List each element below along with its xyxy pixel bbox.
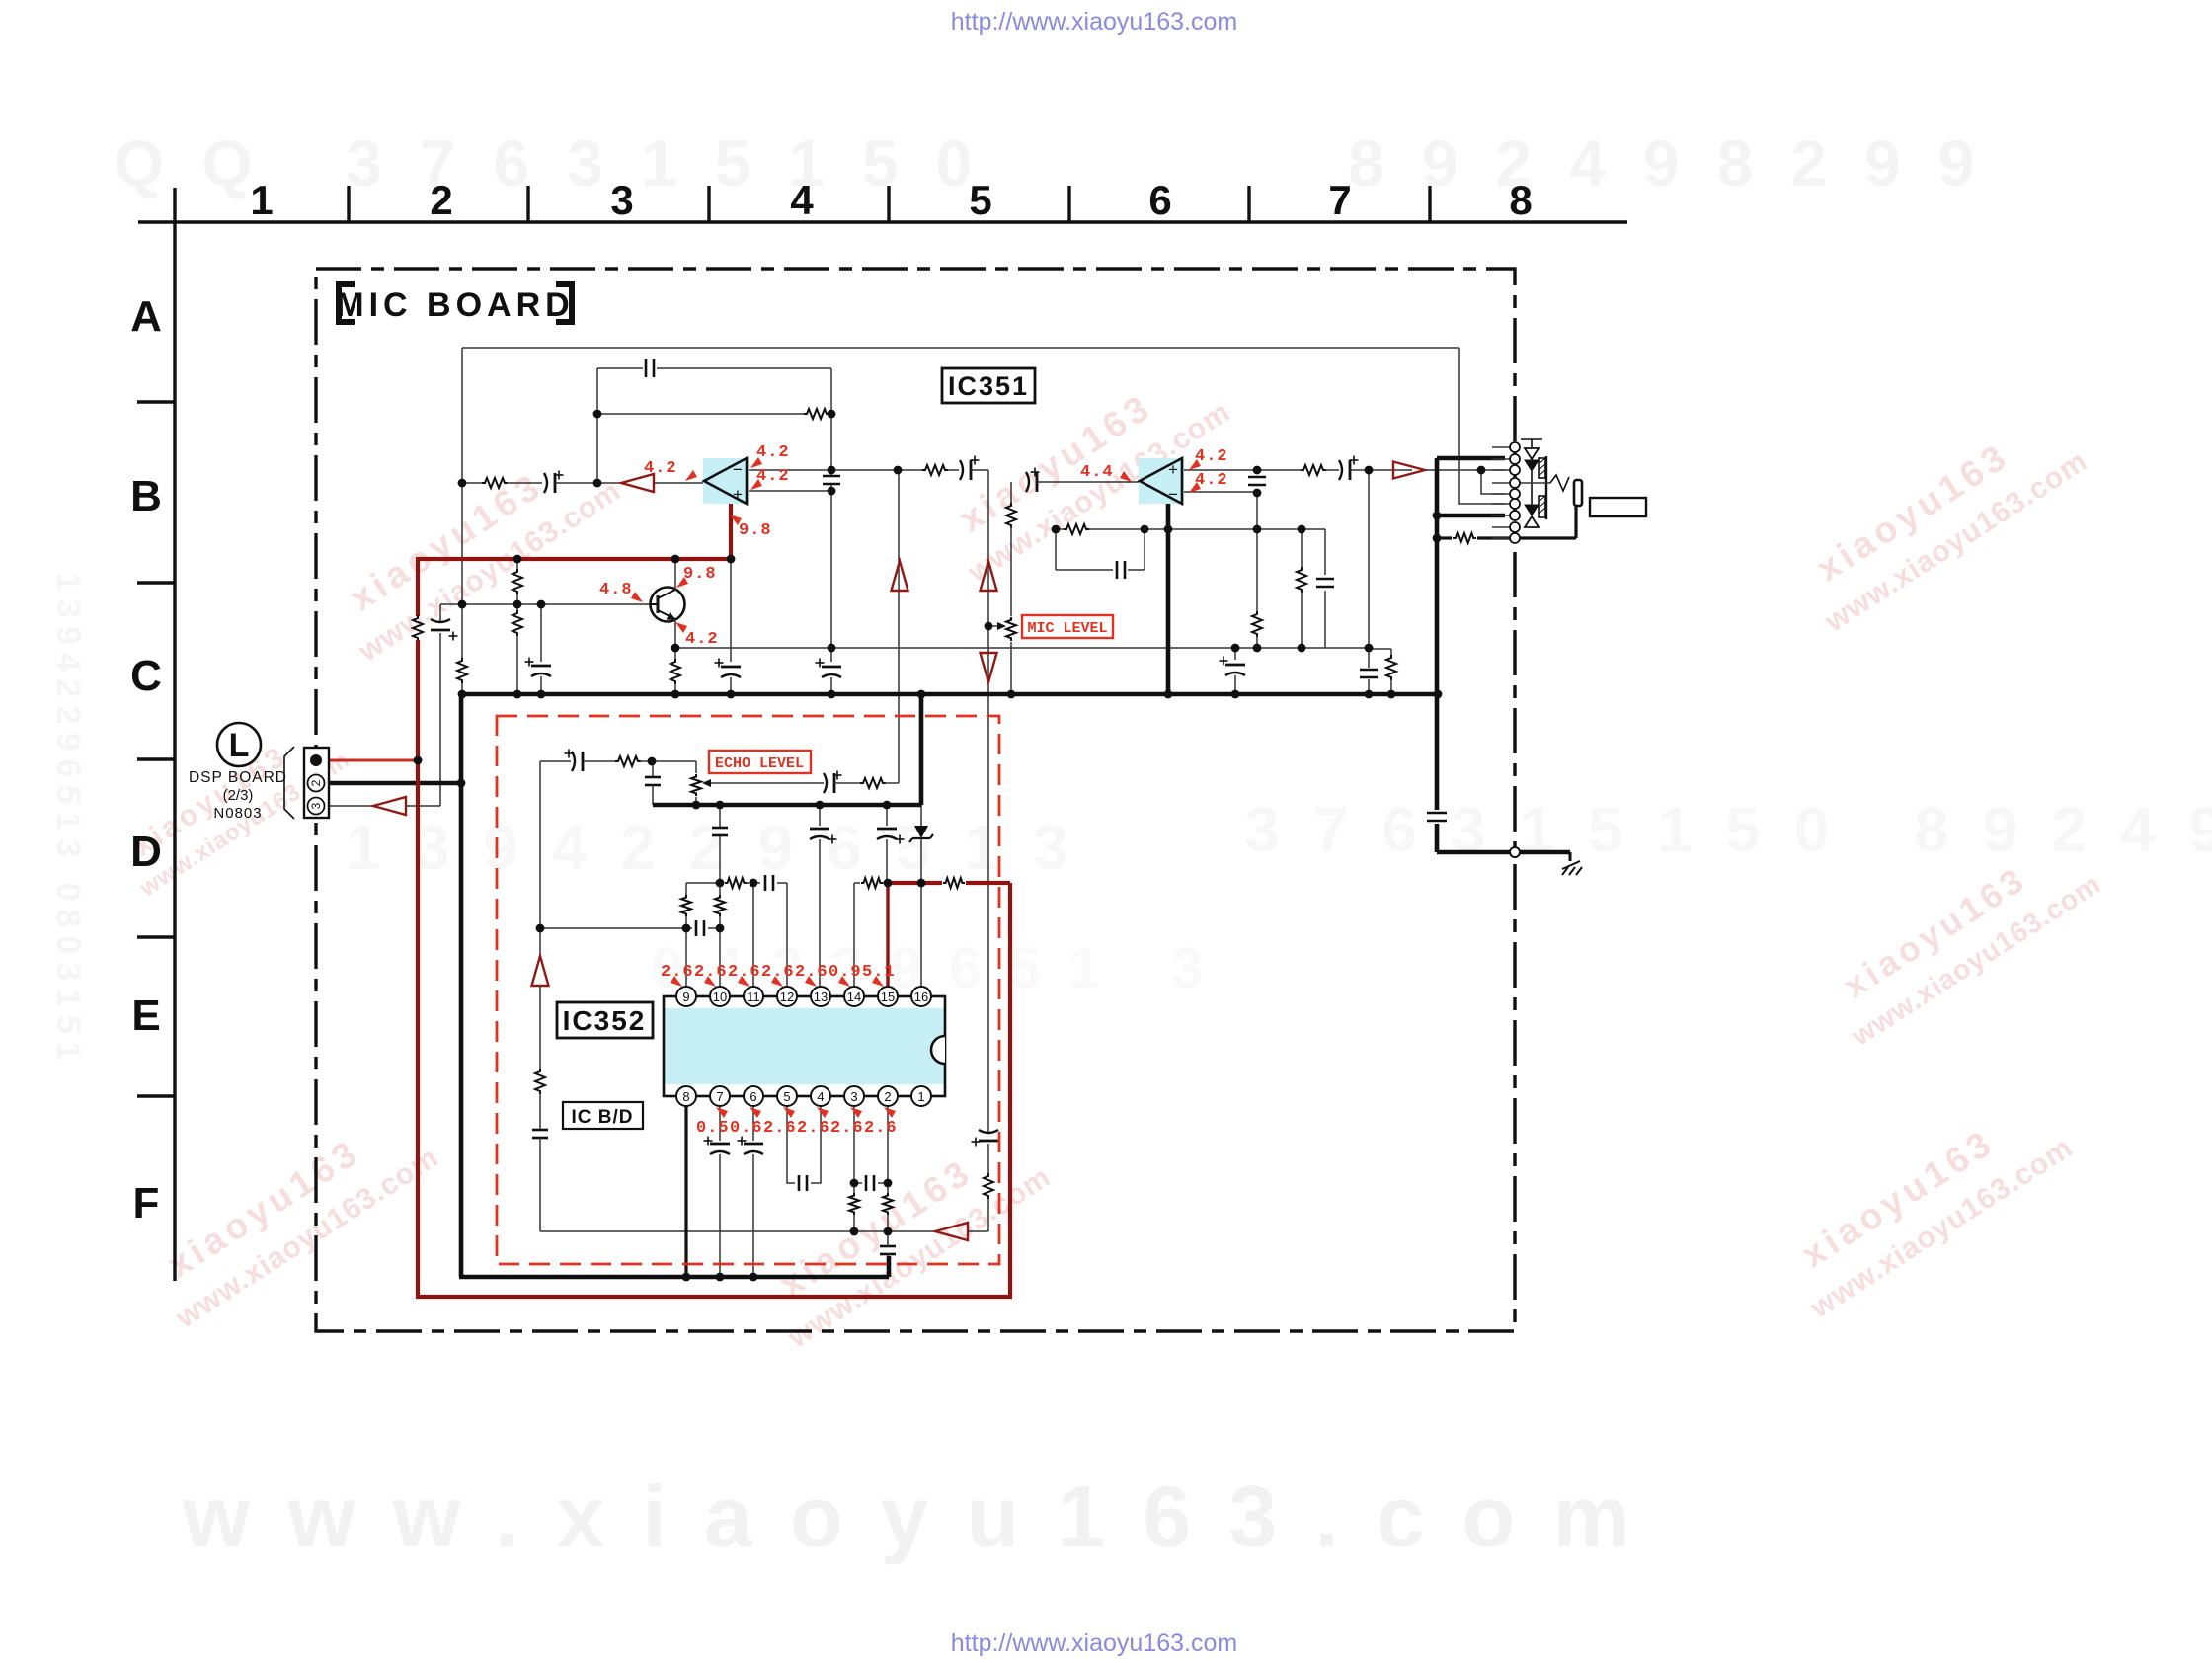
svg-text:F: F [133, 1179, 160, 1227]
svg-text:C: C [130, 652, 162, 700]
wire: y940 line [540, 927, 692, 929]
resistor R21 (pin14) [861, 878, 883, 888]
wire: op2 - input [1184, 491, 1257, 493]
wire: x1273 column [1256, 492, 1258, 612]
dark red supply: bottom rail y1313 [416, 1295, 1012, 1299]
wire: x1318 column [1301, 529, 1303, 568]
wire segment [898, 469, 922, 471]
wire segment [719, 883, 721, 895]
wire segment [540, 604, 542, 662]
svg-text:D: D [130, 828, 162, 876]
microphone jack J1 internals [1492, 439, 1646, 538]
svg-text:0.9: 0.9 [829, 963, 862, 982]
svg-text:2.6: 2.6 [797, 1119, 830, 1138]
svg-text:10: 10 [713, 990, 727, 1004]
svg-text:N0803: N0803 [213, 805, 262, 822]
capacitor C25 (electrolytic x898) [877, 828, 897, 831]
wire: x842 column to y656 rail [830, 491, 832, 662]
wire: mic level feed [1010, 482, 1012, 504]
resistor R26 (inline y894) [943, 878, 965, 888]
svg-text:1: 1 [917, 1089, 924, 1104]
wire segment [971, 469, 988, 471]
wire: x1159 column [1144, 529, 1145, 570]
wire segment [1037, 481, 1140, 483]
wire segment [747, 882, 760, 884]
svg-text:4.2: 4.2 [1195, 447, 1228, 466]
wire segment [887, 1215, 889, 1231]
wire: inner frame right edge to jack contact 6 [1459, 348, 1505, 504]
resistor R13 [1301, 465, 1326, 475]
wire: x446 column lower [439, 633, 441, 806]
IC U2 (IC352 echo chip) [664, 987, 945, 1106]
wire segment [1390, 649, 1392, 656]
wire: echo pot top leg [695, 761, 697, 773]
svg-text:2.6: 2.6 [795, 963, 829, 982]
thick wire: echo ground bus [653, 803, 921, 808]
wire: x661 cap leg [652, 761, 654, 776]
svg-text:2.6: 2.6 [830, 1119, 864, 1138]
dark red segment [888, 881, 942, 885]
svg-text:13: 13 [814, 990, 828, 1004]
ECHO section red dashed box [497, 716, 999, 1264]
wire: op2 + input [1184, 469, 1257, 471]
transistor Q1 [650, 588, 685, 622]
dark red supply: op1 V+ drop [729, 499, 733, 559]
svg-text:9: 9 [682, 990, 689, 1004]
wire: feedback vertical left [596, 368, 598, 483]
resistor R16 (wiper) [860, 778, 886, 788]
svg-text:4.2: 4.2 [644, 459, 677, 478]
wire segment [719, 1154, 721, 1277]
svg-text:IC352: IC352 [563, 1005, 647, 1036]
wire: pin11 column [752, 883, 754, 988]
svg-text:IC351: IC351 [948, 371, 1029, 401]
wire segment [540, 676, 542, 694]
wire segment [853, 1215, 855, 1231]
wire: Q1 emitter [674, 619, 676, 648]
wire segment [1301, 592, 1303, 648]
wire segment [1350, 469, 1412, 471]
wire segment [920, 838, 922, 883]
svg-text:13942296513 0803151: 13942296513 0803151 [49, 573, 87, 1069]
wire segment [719, 916, 721, 928]
dark red supply: y894 rail [966, 881, 1010, 885]
wire: pin3 column [853, 1105, 855, 1183]
svg-text:0.5: 0.5 [696, 1119, 730, 1138]
MIC BOARD title [336, 284, 574, 324]
capacitor C27 (electrolytic pin6) [744, 1143, 763, 1146]
dark red supply: right riser x1023 [1008, 883, 1012, 1299]
resistor R9 (x1024) [1006, 503, 1016, 528]
capacitor C29 (pins3-2) [865, 1175, 868, 1191]
wire segment [968, 1230, 988, 1232]
dark red supply: left drop x423 [416, 557, 420, 616]
wire: pin16 column [920, 883, 922, 988]
wire: x898 cap leg [886, 805, 888, 826]
svg-text:6: 6 [1148, 177, 1171, 223]
zener diode D1 [914, 826, 928, 838]
svg-text:5: 5 [969, 177, 991, 223]
capacitor C19 (polarized wiper) [824, 773, 827, 793]
crossing circle on border (ground run) [1510, 847, 1520, 857]
wire segment [674, 648, 676, 660]
resistor R12 (x1318) [1297, 567, 1306, 593]
thick wire: ground run y863 [1437, 850, 1570, 855]
wire: op1 input line [462, 482, 483, 484]
svg-text:376315150 89249: 376315150 89249 [1244, 794, 2212, 865]
label MIC LEVEL [1022, 615, 1113, 638]
wire segment [1089, 528, 1325, 530]
wire segment [887, 1231, 889, 1246]
capacitor C30 (pin2 lower) [880, 1245, 896, 1248]
label IC352 [557, 1002, 653, 1038]
wire segment [886, 839, 888, 879]
capacitor C31 (jack ground) [1427, 812, 1447, 815]
resistor R25 (inline x423) [413, 615, 423, 641]
resistor R4 (x1001) [984, 1173, 993, 1199]
wire: x842 column upper [830, 414, 832, 475]
wire segment [516, 594, 518, 611]
wire segment [854, 882, 860, 884]
svg-text:14: 14 [847, 990, 861, 1004]
wire segment [920, 805, 922, 826]
wire: pin14 column [853, 883, 855, 988]
capacitor C8 (electrolytic x548) [531, 665, 551, 668]
wire: pin2 column [887, 1105, 889, 1183]
svg-text:E: E [131, 991, 160, 1040]
capacitor C12 (feedback) [1116, 561, 1119, 579]
grid ruler lines and ticks [138, 186, 1627, 1281]
svg-text:6: 6 [750, 1089, 756, 1104]
wire: op2 feedback y536 [1056, 528, 1064, 530]
svg-text:B: B [130, 472, 162, 520]
wire segment [752, 1154, 754, 1277]
wire segment [406, 805, 440, 807]
thick wire: connector pin2 [328, 781, 461, 786]
capacitor C28 (pins5-4) [798, 1175, 801, 1191]
ground bus (main) [460, 692, 1440, 697]
wire segment [885, 782, 899, 784]
wire: op1 inverting input [747, 469, 898, 471]
wire: connector pin3 line [328, 805, 373, 807]
thick wire: bottom bus right leg [887, 1256, 892, 1277]
resistor R2 (op1 feedback) [804, 409, 829, 419]
svg-text:892498299: 892498299 [1348, 126, 2012, 199]
wire segment [948, 469, 959, 471]
wire segment [1234, 648, 1236, 660]
echo wiper arrow [702, 779, 711, 787]
svg-text:12: 12 [780, 990, 794, 1004]
label IC B/D [563, 1102, 643, 1129]
wire segment [1435, 824, 1440, 852]
MIC BOARD dash-dot border [316, 269, 1515, 1331]
wire segment [1324, 591, 1326, 648]
wire segment [1128, 569, 1145, 571]
op-amp U1a (IC351) [703, 458, 749, 504]
thick wire: bottom bus [459, 1275, 889, 1280]
wire: to jack contact 5 [1481, 470, 1505, 494]
thick wire: x933 drop [919, 694, 924, 805]
potentiometer RV1 MIC LEVEL [1006, 617, 1016, 641]
resistor R22 (pin3) [849, 1193, 859, 1215]
label ECHO LEVEL [709, 751, 811, 773]
thick wire: op2 output drop [1166, 499, 1171, 694]
wire: transistor base rail y612 [440, 603, 650, 605]
wire: feedback vertical right [830, 368, 832, 414]
wire segment [887, 1183, 889, 1193]
wire segment [695, 797, 697, 805]
svg-text:8: 8 [1509, 177, 1532, 223]
wire segment [811, 1105, 821, 1183]
svg-text:2: 2 [884, 1089, 891, 1104]
signal arrow into op1 [621, 474, 654, 492]
wire: feedback resistor row [597, 413, 805, 415]
svg-text:4: 4 [790, 177, 814, 223]
resistor R19 (pin10) [715, 895, 725, 916]
wire: x1001 column upper [987, 470, 989, 1132]
jack contact circles [1510, 442, 1520, 543]
svg-text:MIC BOARD: MIC BOARD [336, 286, 574, 324]
svg-text:http://www.xiaoyu163.com: http://www.xiaoyu163.com [951, 1629, 1237, 1657]
wire: pin13 column [819, 805, 821, 826]
capacitor C23 (y894) [764, 875, 767, 891]
svg-text:1: 1 [250, 177, 273, 223]
wire segment [685, 916, 687, 928]
mic wiper arrow [997, 622, 1006, 630]
wire segment [1256, 636, 1258, 648]
wire segment [507, 482, 542, 484]
svg-text:A: A [130, 292, 162, 341]
svg-text:3: 3 [610, 177, 633, 223]
svg-text:2.6: 2.6 [763, 1119, 797, 1138]
wire segment [674, 683, 676, 694]
capacitor C18 (x661) [645, 776, 661, 779]
wire segment [1010, 642, 1012, 694]
wire segment [1425, 469, 1505, 471]
resistor R1 (op1 input) [482, 478, 508, 488]
thick wire: left edge down [459, 694, 464, 1277]
capacitor C10 (polarized) [1026, 472, 1029, 492]
wire: return line y1247 [540, 1230, 935, 1232]
svg-text:−: − [733, 460, 743, 479]
wire: pin12 column [786, 883, 788, 988]
capacitor C5 (polarized) [960, 460, 963, 480]
svg-text:MIC LEVEL: MIC LEVEL [1027, 620, 1107, 637]
signal arrow up on x910 [892, 561, 908, 591]
voltage annotations [599, 443, 1228, 1138]
capacitor C2 (op1 feedback) [645, 359, 648, 377]
svg-text:2.6: 2.6 [661, 963, 694, 982]
capacitor C15 (electrolytic x1251) [1225, 664, 1245, 667]
wire segment [719, 836, 721, 883]
svg-text:QQ 376315150: QQ 376315150 [114, 126, 1009, 199]
svg-text:0.6: 0.6 [730, 1119, 763, 1138]
svg-text:2.6: 2.6 [761, 963, 795, 982]
wire: x842 column mid [830, 485, 832, 491]
wire: echo wiper riser x910 [898, 470, 900, 783]
resistor R23 (pin2) [883, 1193, 893, 1215]
wire segment [516, 559, 518, 570]
wire segment [987, 1144, 989, 1174]
resistor R20 (y894) [725, 878, 747, 888]
svg-text:4.8: 4.8 [599, 581, 633, 599]
wire segment [834, 782, 861, 784]
wire segment [730, 677, 732, 694]
svg-text:2.6: 2.6 [728, 963, 761, 982]
resistor R14 (x1409) [1386, 655, 1396, 680]
wire segment [1010, 527, 1012, 616]
capacitor C24 (electrolytic pin13) [810, 828, 829, 831]
grid column numbers 1-8 [250, 177, 1532, 223]
wire segment [719, 928, 721, 988]
svg-text:7: 7 [716, 1089, 723, 1104]
svg-text:ECHO LEVEL: ECHO LEVEL [715, 755, 804, 772]
wire segment [883, 882, 888, 884]
wire: inner frame top [462, 347, 1459, 349]
wire segment [854, 1182, 862, 1184]
signal arrow on return line [935, 1223, 968, 1240]
wire segment [878, 1182, 888, 1184]
wire: op1 non-inverting input [747, 490, 831, 492]
potentiometer RV2 ECHO LEVEL [691, 774, 701, 796]
wire: pin5 column [787, 1105, 795, 1183]
svg-text:9.8: 9.8 [739, 521, 772, 540]
wire: pin6 column [752, 1105, 754, 1141]
wire segment [539, 1093, 541, 1129]
wire: Q1 collector [674, 559, 676, 590]
thick wire: jack contact7 feed [1437, 514, 1505, 518]
ground symbol [1569, 852, 1572, 861]
svg-text:http://www.xiaoyu163.com: http://www.xiaoyu163.com [951, 8, 1237, 36]
wire segment [777, 882, 787, 884]
wire segment [887, 1254, 889, 1275]
wire segment [1234, 675, 1236, 694]
wire segment [1326, 469, 1339, 471]
wire segment [1390, 679, 1392, 694]
capacitor C20 (x547) [532, 1129, 548, 1132]
thick wire: jack column x1455 [1435, 458, 1440, 810]
svg-text:4.2: 4.2 [1195, 471, 1228, 490]
svg-text:15: 15 [881, 990, 895, 1004]
svg-text:L: L [229, 727, 250, 764]
grid row letters A-F [130, 292, 175, 1227]
capacitor C13 (x1342) [1316, 578, 1334, 581]
svg-text:2: 2 [309, 779, 323, 786]
resistor R24 (jack) [1453, 533, 1476, 543]
wire: y894 line [686, 882, 724, 884]
resistor R3 [922, 465, 948, 475]
wire segment [583, 760, 616, 762]
wire segment [652, 760, 696, 762]
capacitor C9 (electrolytic x740) [721, 666, 741, 669]
resistor R15 (echo feed) [615, 756, 641, 766]
svg-text:2: 2 [430, 177, 452, 223]
thick wire: jack tip feed [1437, 456, 1505, 461]
wire: emitter rail y656 [675, 647, 1369, 649]
svg-text:+: + [1168, 460, 1178, 479]
capacitor C4 (electrolytic to ground) [822, 666, 841, 669]
wire segment [819, 839, 821, 988]
wire: left edge lower segment [461, 683, 463, 694]
resistor R10 (x1273) [1252, 611, 1262, 637]
wire: x446 column upper [439, 604, 441, 621]
resistor R7 (x468) [457, 658, 467, 683]
capacitor C3 (between op1 inputs) [823, 475, 840, 478]
thick wire: jack contact9 feed [1437, 536, 1452, 539]
wire segment [1368, 648, 1370, 668]
capacitor C11 (between op2 inputs) [1248, 476, 1266, 479]
svg-text:9.8: 9.8 [683, 565, 717, 584]
wire segment [555, 482, 621, 484]
resistor R18 (pin9) [681, 895, 691, 916]
svg-text:4.2: 4.2 [685, 630, 719, 649]
capacitor C7 (electrolytic x446) [431, 629, 450, 632]
capacitor C22 (pin10) [712, 827, 728, 830]
wire: pin9 column [685, 883, 687, 895]
svg-text:3: 3 [309, 802, 323, 809]
resistor R8 (Q1 emitter) [671, 659, 680, 684]
wire: echo feed corner [540, 760, 571, 762]
wire segment [539, 1138, 541, 1231]
wire: feedback top with cap [597, 367, 643, 369]
wire segment [830, 677, 832, 694]
connector CN1 to DSP board [284, 747, 329, 819]
wire: echo wiper line [711, 782, 824, 784]
svg-text:www.xiaoyu163.com: www.xiaoyu163.com [182, 1467, 1668, 1565]
wire segment [640, 760, 652, 762]
signal arrow down on x1001 [981, 653, 997, 682]
label IC351 [942, 368, 1035, 403]
capacitor C17 (polarized echo feed) [572, 752, 575, 771]
svg-text:4: 4 [817, 1089, 824, 1104]
svg-text:8: 8 [682, 1089, 689, 1104]
capacitor C6 (polarized, x1001) [979, 1140, 998, 1143]
wire: x1069 column [1055, 529, 1057, 570]
resistor R5 (x524 upper) [513, 569, 522, 594]
wire segment [657, 367, 831, 369]
svg-text:IC B/D: IC B/D [572, 1107, 634, 1128]
op-amp U1b (IC351) [1139, 458, 1184, 504]
signal arrow to jack [1393, 462, 1425, 479]
svg-text:DSP BOARD: DSP BOARD [189, 769, 287, 786]
wire segment [730, 559, 732, 662]
svg-text:5: 5 [783, 1089, 790, 1104]
wire segment [987, 1198, 989, 1231]
red wire: connector pin1 [328, 759, 419, 762]
wire: mic wiper [988, 625, 1000, 627]
wire: inner frame left edge [461, 348, 463, 658]
capacitor C26 (electrolytic pin7) [710, 1143, 730, 1146]
wire segment [708, 927, 720, 929]
wire segment [829, 413, 831, 415]
dark red: pin15 column [886, 883, 889, 990]
svg-text:3: 3 [850, 1089, 857, 1104]
capacitor C21 (y940) [695, 920, 698, 936]
wire segment [652, 785, 654, 805]
thick wire: pin8 column [684, 1105, 687, 1277]
wire segment [1477, 536, 1576, 539]
svg-text:4.2: 4.2 [756, 443, 790, 462]
wire: sleeve riser [1574, 506, 1577, 538]
wire segment [539, 986, 541, 1069]
wire segment [1368, 679, 1370, 694]
wire segment [853, 1183, 855, 1193]
wire: x547 column [539, 761, 541, 956]
signal arrow on pin3 line [373, 797, 406, 815]
capacitor C14 (polarized) [1339, 460, 1342, 480]
svg-text:2.6: 2.6 [864, 1119, 898, 1138]
wire: pin7 column [719, 1105, 721, 1141]
